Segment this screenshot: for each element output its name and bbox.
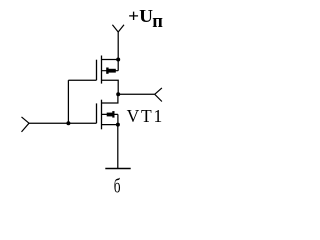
svg-text:б: б [114,176,121,196]
node input gate junction [66,121,70,125]
wire input to upper gate [67,80,69,123]
source stub VT1 [102,124,118,126]
drain stub VT1 [102,94,118,103]
output terminal [155,88,162,102]
channel bar VT2 [101,56,103,84]
svg-text:+U: +U [128,6,153,26]
node source VT1 [116,123,120,127]
gate lead VT2 [68,79,96,81]
ground bar [105,168,130,170]
transistor VT2 (load MOSFET, top) [68,56,118,95]
wire output [118,93,155,95]
substrate-to-drain wire VT2 [117,60,119,71]
channel bar VT1 [101,100,103,130]
node drain of load transistor [116,58,120,62]
substrate-to-source wire VT1 [117,114,119,124]
wire ground [117,125,119,169]
gate lead VT1 [29,122,97,124]
drain stub VT2 [102,59,119,61]
svg-text:VT1: VT1 [127,106,164,126]
substrate arrow VT2 (points left) [102,68,119,74]
node output [116,92,120,96]
label +Uп [128,6,163,32]
input terminal [22,117,30,132]
transistor VT1 (switch MOSFET, bottom) [29,94,118,129]
source stub VT2 [102,80,119,94]
gate bar VT1 [96,103,98,123]
gate bar VT2 [96,60,98,80]
svg-text:п: п [152,12,163,32]
substrate arrow VT1 (points right) [102,111,118,118]
supply terminal +Up [112,25,124,32]
wire supply [117,32,119,60]
